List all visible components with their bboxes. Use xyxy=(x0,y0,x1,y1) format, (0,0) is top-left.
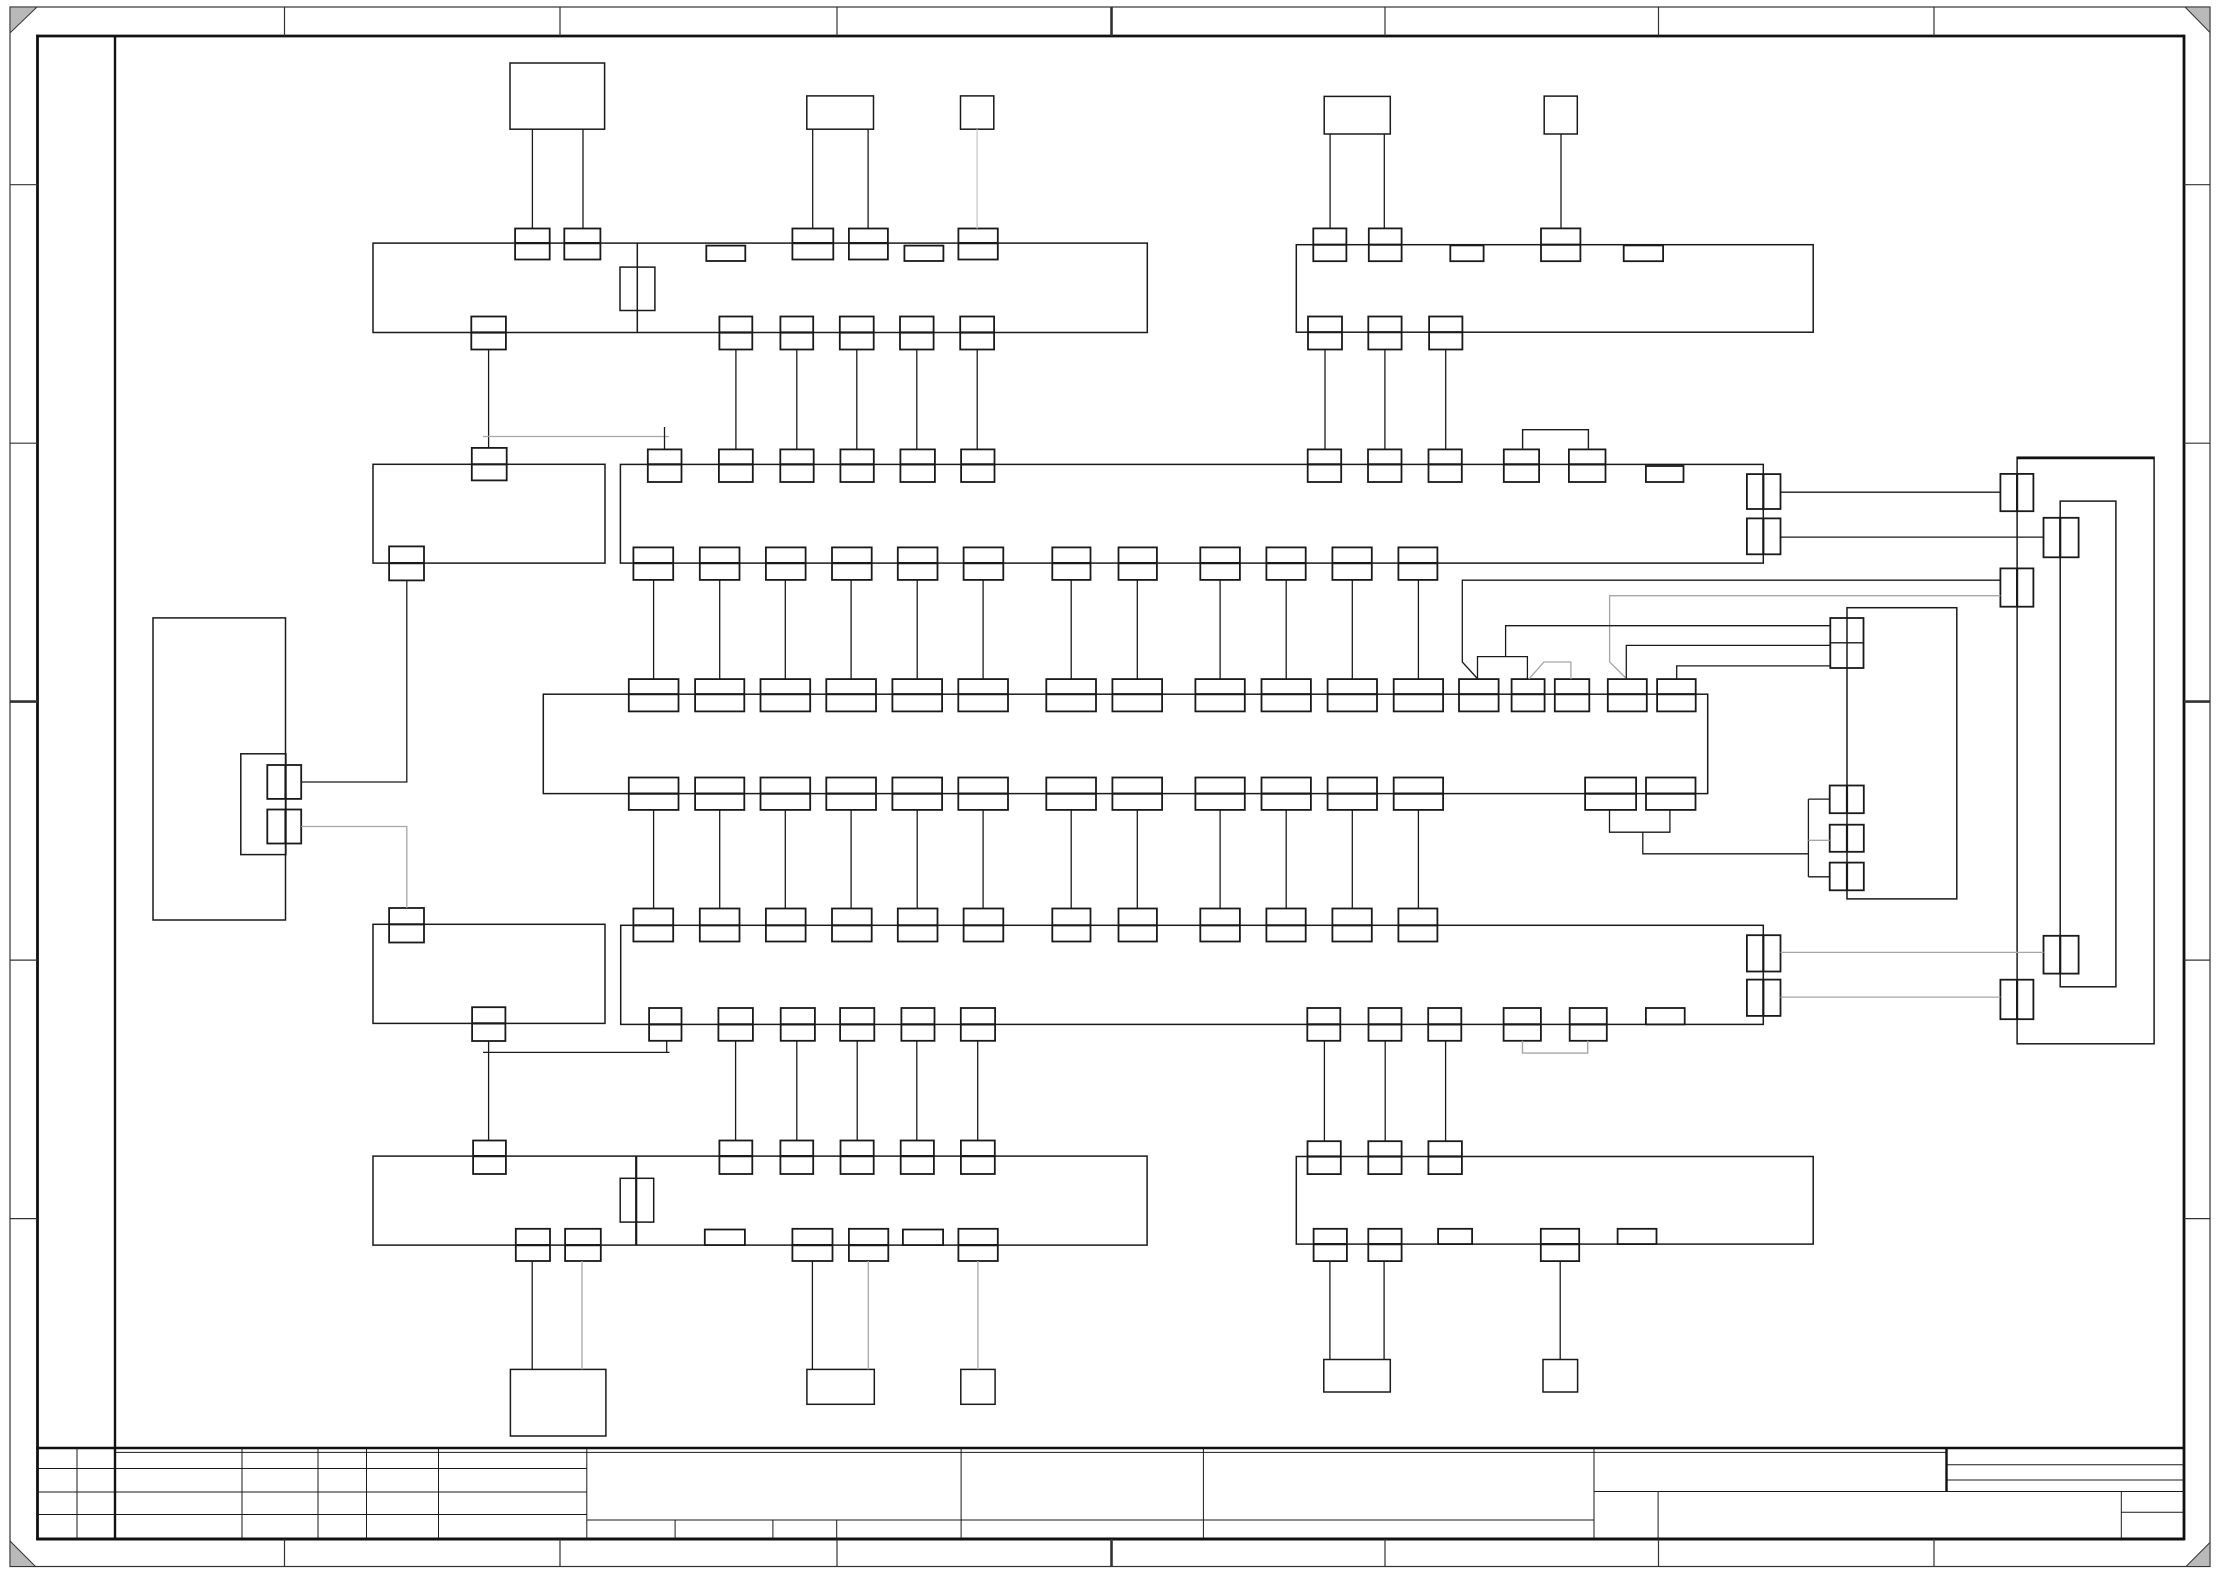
terminal X3.21 xyxy=(1200,547,1240,580)
wire xyxy=(1781,491,2001,493)
terminal X3.7 xyxy=(1308,449,1342,482)
terminal X6.1 xyxy=(633,909,673,942)
terminal X1.7 xyxy=(904,246,943,261)
terminal X6.17 xyxy=(901,1008,934,1041)
device M7 xyxy=(807,1369,874,1404)
wire xyxy=(977,1261,979,1369)
terminal X6.21 xyxy=(1428,1008,1461,1041)
terminal X8.6 xyxy=(961,1141,995,1175)
terminal X5.24 xyxy=(1046,778,1096,810)
terminal X1.13 xyxy=(960,317,994,350)
wire xyxy=(301,827,407,909)
wire xyxy=(735,350,737,450)
wire xyxy=(719,810,721,909)
terminal X8.12 xyxy=(705,1230,745,1246)
terminal X6.13 xyxy=(649,1008,681,1041)
wire xyxy=(1136,810,1138,909)
wire xyxy=(1523,1041,1588,1053)
terminal X9.2 xyxy=(1368,1141,1401,1174)
terminal X6.26 xyxy=(1747,980,1781,1016)
terminal X9.5 xyxy=(1368,1229,1401,1261)
wire xyxy=(488,1041,490,1141)
wire xyxy=(1781,996,2001,998)
terminal X7.1 xyxy=(389,908,424,943)
wire xyxy=(784,580,786,679)
wire xyxy=(1219,810,1221,909)
terminal X3.6 xyxy=(961,449,994,482)
terminal X8.10 xyxy=(849,1229,888,1261)
terminal X3.18 xyxy=(964,547,1004,580)
controller U1 xyxy=(153,618,286,920)
terminal X5.1 xyxy=(629,679,679,711)
terminal U1.2 xyxy=(267,810,301,844)
wire xyxy=(982,580,984,679)
terminal X8.9 xyxy=(792,1229,832,1261)
terminal X5.28 xyxy=(1328,778,1377,810)
terminal X2.2 xyxy=(389,546,424,580)
wire xyxy=(1529,662,1571,679)
wire xyxy=(1384,1041,1386,1141)
fuse F2 xyxy=(620,1178,654,1222)
terminal X9.8 xyxy=(1618,1229,1657,1244)
wire xyxy=(916,580,918,679)
terminal X8.13 xyxy=(903,1230,943,1246)
terminal X3.16 xyxy=(832,547,872,580)
device M4 xyxy=(1324,96,1390,134)
terminal X6.4 xyxy=(832,909,872,942)
terminal X3.14 xyxy=(700,547,740,580)
terminal strip X8 xyxy=(373,1156,1147,1245)
wire xyxy=(483,1051,670,1053)
fuse F1 xyxy=(620,267,655,310)
wire xyxy=(301,580,407,782)
terminal X4.4 xyxy=(1450,245,1483,261)
terminal X6.23 xyxy=(1570,1008,1607,1041)
wire xyxy=(850,580,852,679)
terminal X6.12 xyxy=(1398,909,1437,942)
wire xyxy=(916,1041,918,1141)
wire xyxy=(1070,810,1072,909)
wire xyxy=(1445,350,1447,450)
wire xyxy=(1417,580,1419,679)
terminal X4.7 xyxy=(1368,317,1401,350)
terminal X5.16 xyxy=(1608,679,1647,711)
terminal strip X9 xyxy=(1296,1157,1813,1245)
wire xyxy=(856,350,858,450)
terminal X6.24 xyxy=(1646,1008,1685,1024)
wire xyxy=(867,1261,869,1369)
wire xyxy=(1781,951,2044,953)
terminal X9.7 xyxy=(1438,1229,1472,1244)
terminal X5.5 xyxy=(892,679,942,711)
terminal X6.5 xyxy=(898,909,938,942)
terminal X1.8 xyxy=(471,317,506,350)
terminal X3.20 xyxy=(1119,547,1157,580)
terminal X3.10 xyxy=(1504,449,1539,482)
terminal X1.3 xyxy=(792,229,833,260)
terminal X6.15 xyxy=(781,1008,815,1041)
device M3 xyxy=(961,96,994,129)
wire xyxy=(1383,134,1385,228)
terminal X5.9 xyxy=(1195,679,1244,711)
wire xyxy=(1285,810,1287,909)
terminal X3.3 xyxy=(780,449,813,482)
terminal X5.3 xyxy=(761,679,811,711)
terminal X1.10 xyxy=(780,317,813,350)
terminal X8.1 xyxy=(473,1141,506,1175)
terminal X6.3 xyxy=(766,909,806,942)
terminal X4.3 xyxy=(1541,228,1580,261)
terminal X1.6 xyxy=(706,246,745,261)
wire xyxy=(1219,580,1221,679)
wire xyxy=(653,810,655,909)
wire xyxy=(1610,596,2001,678)
device M9 xyxy=(1324,1360,1391,1393)
terminal X5.30 xyxy=(1585,778,1636,810)
wire xyxy=(1417,810,1419,909)
device M5 xyxy=(1544,96,1577,134)
terminal X1.4 xyxy=(849,229,888,260)
terminal X6.8 xyxy=(1119,909,1157,942)
terminal X3.9 xyxy=(1429,449,1462,482)
terminal X3.11 xyxy=(1569,449,1606,482)
terminal U2.3 xyxy=(2000,980,2033,1020)
wire xyxy=(719,580,721,679)
terminal X5.15 xyxy=(1555,679,1590,711)
terminal X3.12 xyxy=(1646,466,1684,482)
terminal strip X3 xyxy=(620,464,1763,563)
terminal X5.6 xyxy=(958,679,1008,711)
wire xyxy=(977,1041,979,1141)
wire xyxy=(1285,580,1287,679)
wire xyxy=(1478,657,1528,680)
device M10 xyxy=(1543,1360,1578,1393)
wire xyxy=(850,810,852,909)
divider X1 xyxy=(636,243,638,332)
wire xyxy=(1807,799,1809,877)
wire xyxy=(1808,839,1829,841)
terminal X6.18 xyxy=(961,1008,995,1041)
terminal U3.1 xyxy=(2044,518,2079,558)
terminal X6.22 xyxy=(1504,1008,1541,1041)
terminal U4.3 xyxy=(1830,825,1864,852)
terminal X5.22 xyxy=(892,778,942,810)
wire xyxy=(488,350,490,448)
terminal X6.7 xyxy=(1052,909,1090,942)
terminal X1.11 xyxy=(840,317,874,350)
terminal X8.7 xyxy=(516,1229,550,1261)
terminal X5.7 xyxy=(1046,679,1096,711)
terminal X3.4 xyxy=(840,449,873,482)
terminal X5.21 xyxy=(826,778,876,810)
terminal strip X6 xyxy=(621,925,1764,1024)
terminal X5.27 xyxy=(1262,778,1311,810)
terminal X6.16 xyxy=(840,1008,874,1041)
terminal X3.5 xyxy=(900,449,935,482)
wire xyxy=(1323,1041,1325,1141)
wire xyxy=(666,1041,668,1053)
wire xyxy=(531,1261,533,1369)
terminal X8.3 xyxy=(780,1141,813,1175)
wire xyxy=(664,427,666,449)
wire xyxy=(796,350,798,450)
wire xyxy=(1559,1261,1561,1359)
device U4 xyxy=(1847,608,1957,899)
wire xyxy=(867,129,869,228)
wire xyxy=(483,436,669,438)
terminal U4.4 xyxy=(1830,863,1864,891)
wire xyxy=(976,129,978,228)
terminal X5.29 xyxy=(1394,778,1443,810)
terminal X8.2 xyxy=(719,1141,752,1175)
wire xyxy=(916,350,918,450)
terminal X6.20 xyxy=(1369,1008,1402,1041)
wire xyxy=(1808,798,1829,800)
terminal strip X2 xyxy=(373,464,605,563)
wire xyxy=(1329,1261,1331,1359)
terminal X5.13 xyxy=(1459,679,1499,711)
terminal X9.4 xyxy=(1314,1229,1347,1261)
wire xyxy=(1781,536,2044,538)
wire xyxy=(1610,810,1670,832)
terminal X7.2 xyxy=(472,1007,505,1041)
wire xyxy=(531,129,533,228)
terminal X9.1 xyxy=(1308,1141,1341,1174)
terminal X6.19 xyxy=(1307,1008,1340,1041)
wire xyxy=(1324,350,1326,450)
wire xyxy=(1351,580,1353,679)
terminal X8.5 xyxy=(901,1141,934,1175)
wire xyxy=(1383,1261,1385,1359)
terminal X3.13 xyxy=(633,547,673,580)
wire xyxy=(1384,350,1386,450)
terminal strip X5 xyxy=(543,694,1707,793)
terminal X3.23 xyxy=(1332,547,1371,580)
terminal X1.5 xyxy=(958,229,997,260)
terminal U4.1 xyxy=(1830,618,1863,668)
wire xyxy=(784,810,786,909)
device M8 xyxy=(961,1369,995,1404)
terminal X5.12 xyxy=(1394,679,1443,711)
terminal X4.1 xyxy=(1313,228,1346,261)
terminal X9.3 xyxy=(1428,1141,1462,1174)
terminal X3.26 xyxy=(1747,518,1781,554)
wire xyxy=(735,1041,737,1141)
divider X8 xyxy=(635,1156,637,1245)
terminal X8.11 xyxy=(958,1229,997,1261)
terminal X8.4 xyxy=(841,1141,874,1175)
terminal U2.2 xyxy=(2000,568,2033,606)
terminal X3.15 xyxy=(766,547,806,580)
terminal X5.23 xyxy=(958,778,1008,810)
terminal X6.10 xyxy=(1266,909,1305,942)
device M2 xyxy=(807,96,874,129)
terminal X5.31 xyxy=(1646,778,1696,810)
terminal strip X7 xyxy=(373,924,605,1023)
wire xyxy=(811,1261,813,1369)
terminal U1.1 xyxy=(267,765,301,799)
wire xyxy=(582,129,584,228)
terminal U2.1 xyxy=(2000,474,2033,511)
terminal U3.2 xyxy=(2044,936,2079,974)
terminal X3.24 xyxy=(1398,547,1437,580)
terminal X5.19 xyxy=(695,778,744,810)
wire xyxy=(1523,430,1589,449)
terminal X5.11 xyxy=(1328,679,1377,711)
device M6 xyxy=(510,1369,606,1436)
terminal X5.18 xyxy=(629,778,679,810)
wire xyxy=(856,1041,858,1141)
terminal X6.2 xyxy=(700,909,740,942)
terminal X3.25 xyxy=(1747,474,1781,509)
terminal X3.2 xyxy=(719,449,753,482)
wire xyxy=(1136,580,1138,679)
terminal X5.8 xyxy=(1112,679,1162,711)
terminal X5.25 xyxy=(1112,778,1162,810)
wire xyxy=(1462,580,2000,678)
terminal X1.12 xyxy=(900,317,934,350)
terminal X2.1 xyxy=(472,448,507,481)
wire xyxy=(1070,580,1072,679)
terminal X3.17 xyxy=(898,547,938,580)
terminal X4.5 xyxy=(1624,245,1663,261)
wire xyxy=(1506,626,1831,657)
terminal X9.6 xyxy=(1541,1229,1579,1261)
terminal X6.14 xyxy=(718,1008,753,1041)
terminal X5.14 xyxy=(1512,679,1545,711)
wire xyxy=(581,1261,583,1369)
wire xyxy=(982,810,984,909)
terminal X3.19 xyxy=(1052,547,1090,580)
terminal strip X1 xyxy=(373,243,1147,332)
wire xyxy=(1560,134,1562,228)
terminal strip X4 xyxy=(1296,245,1813,333)
wire xyxy=(1808,876,1829,878)
terminal U4.2 xyxy=(1830,786,1864,814)
wire xyxy=(1351,810,1353,909)
cabinet U2 xyxy=(2017,457,2154,1044)
wire xyxy=(976,350,978,450)
terminal X1.1 xyxy=(515,229,550,260)
terminal X5.2 xyxy=(695,679,744,711)
wire xyxy=(796,1041,798,1141)
wire xyxy=(1643,832,1809,854)
terminal X3.8 xyxy=(1368,449,1402,482)
wire xyxy=(1329,134,1331,228)
terminal X5.26 xyxy=(1195,778,1244,810)
terminal X8.8 xyxy=(565,1229,601,1261)
wire xyxy=(1445,1041,1447,1141)
terminal X5.20 xyxy=(761,778,811,810)
wire xyxy=(1626,645,1830,679)
terminal X6.6 xyxy=(964,909,1004,942)
terminal X3.1 xyxy=(648,449,682,482)
terminal X4.8 xyxy=(1429,317,1462,350)
terminal X3.22 xyxy=(1266,547,1305,580)
terminal X1.9 xyxy=(719,317,752,350)
terminal X1.2 xyxy=(564,229,600,260)
terminal X5.17 xyxy=(1657,679,1696,711)
terminal X6.11 xyxy=(1332,909,1371,942)
terminal X4.2 xyxy=(1369,228,1402,261)
terminal X5.10 xyxy=(1262,679,1311,711)
module U3 xyxy=(2060,501,2116,987)
terminal X6.9 xyxy=(1200,909,1240,942)
wire xyxy=(812,129,814,228)
terminal X4.6 xyxy=(1308,317,1342,350)
wire xyxy=(653,580,655,679)
wire xyxy=(916,810,918,909)
device M1 xyxy=(510,63,605,129)
connector U1-X xyxy=(241,754,286,855)
terminal X6.25 xyxy=(1747,935,1781,971)
terminal X5.4 xyxy=(826,679,876,711)
wire xyxy=(1677,666,1831,679)
